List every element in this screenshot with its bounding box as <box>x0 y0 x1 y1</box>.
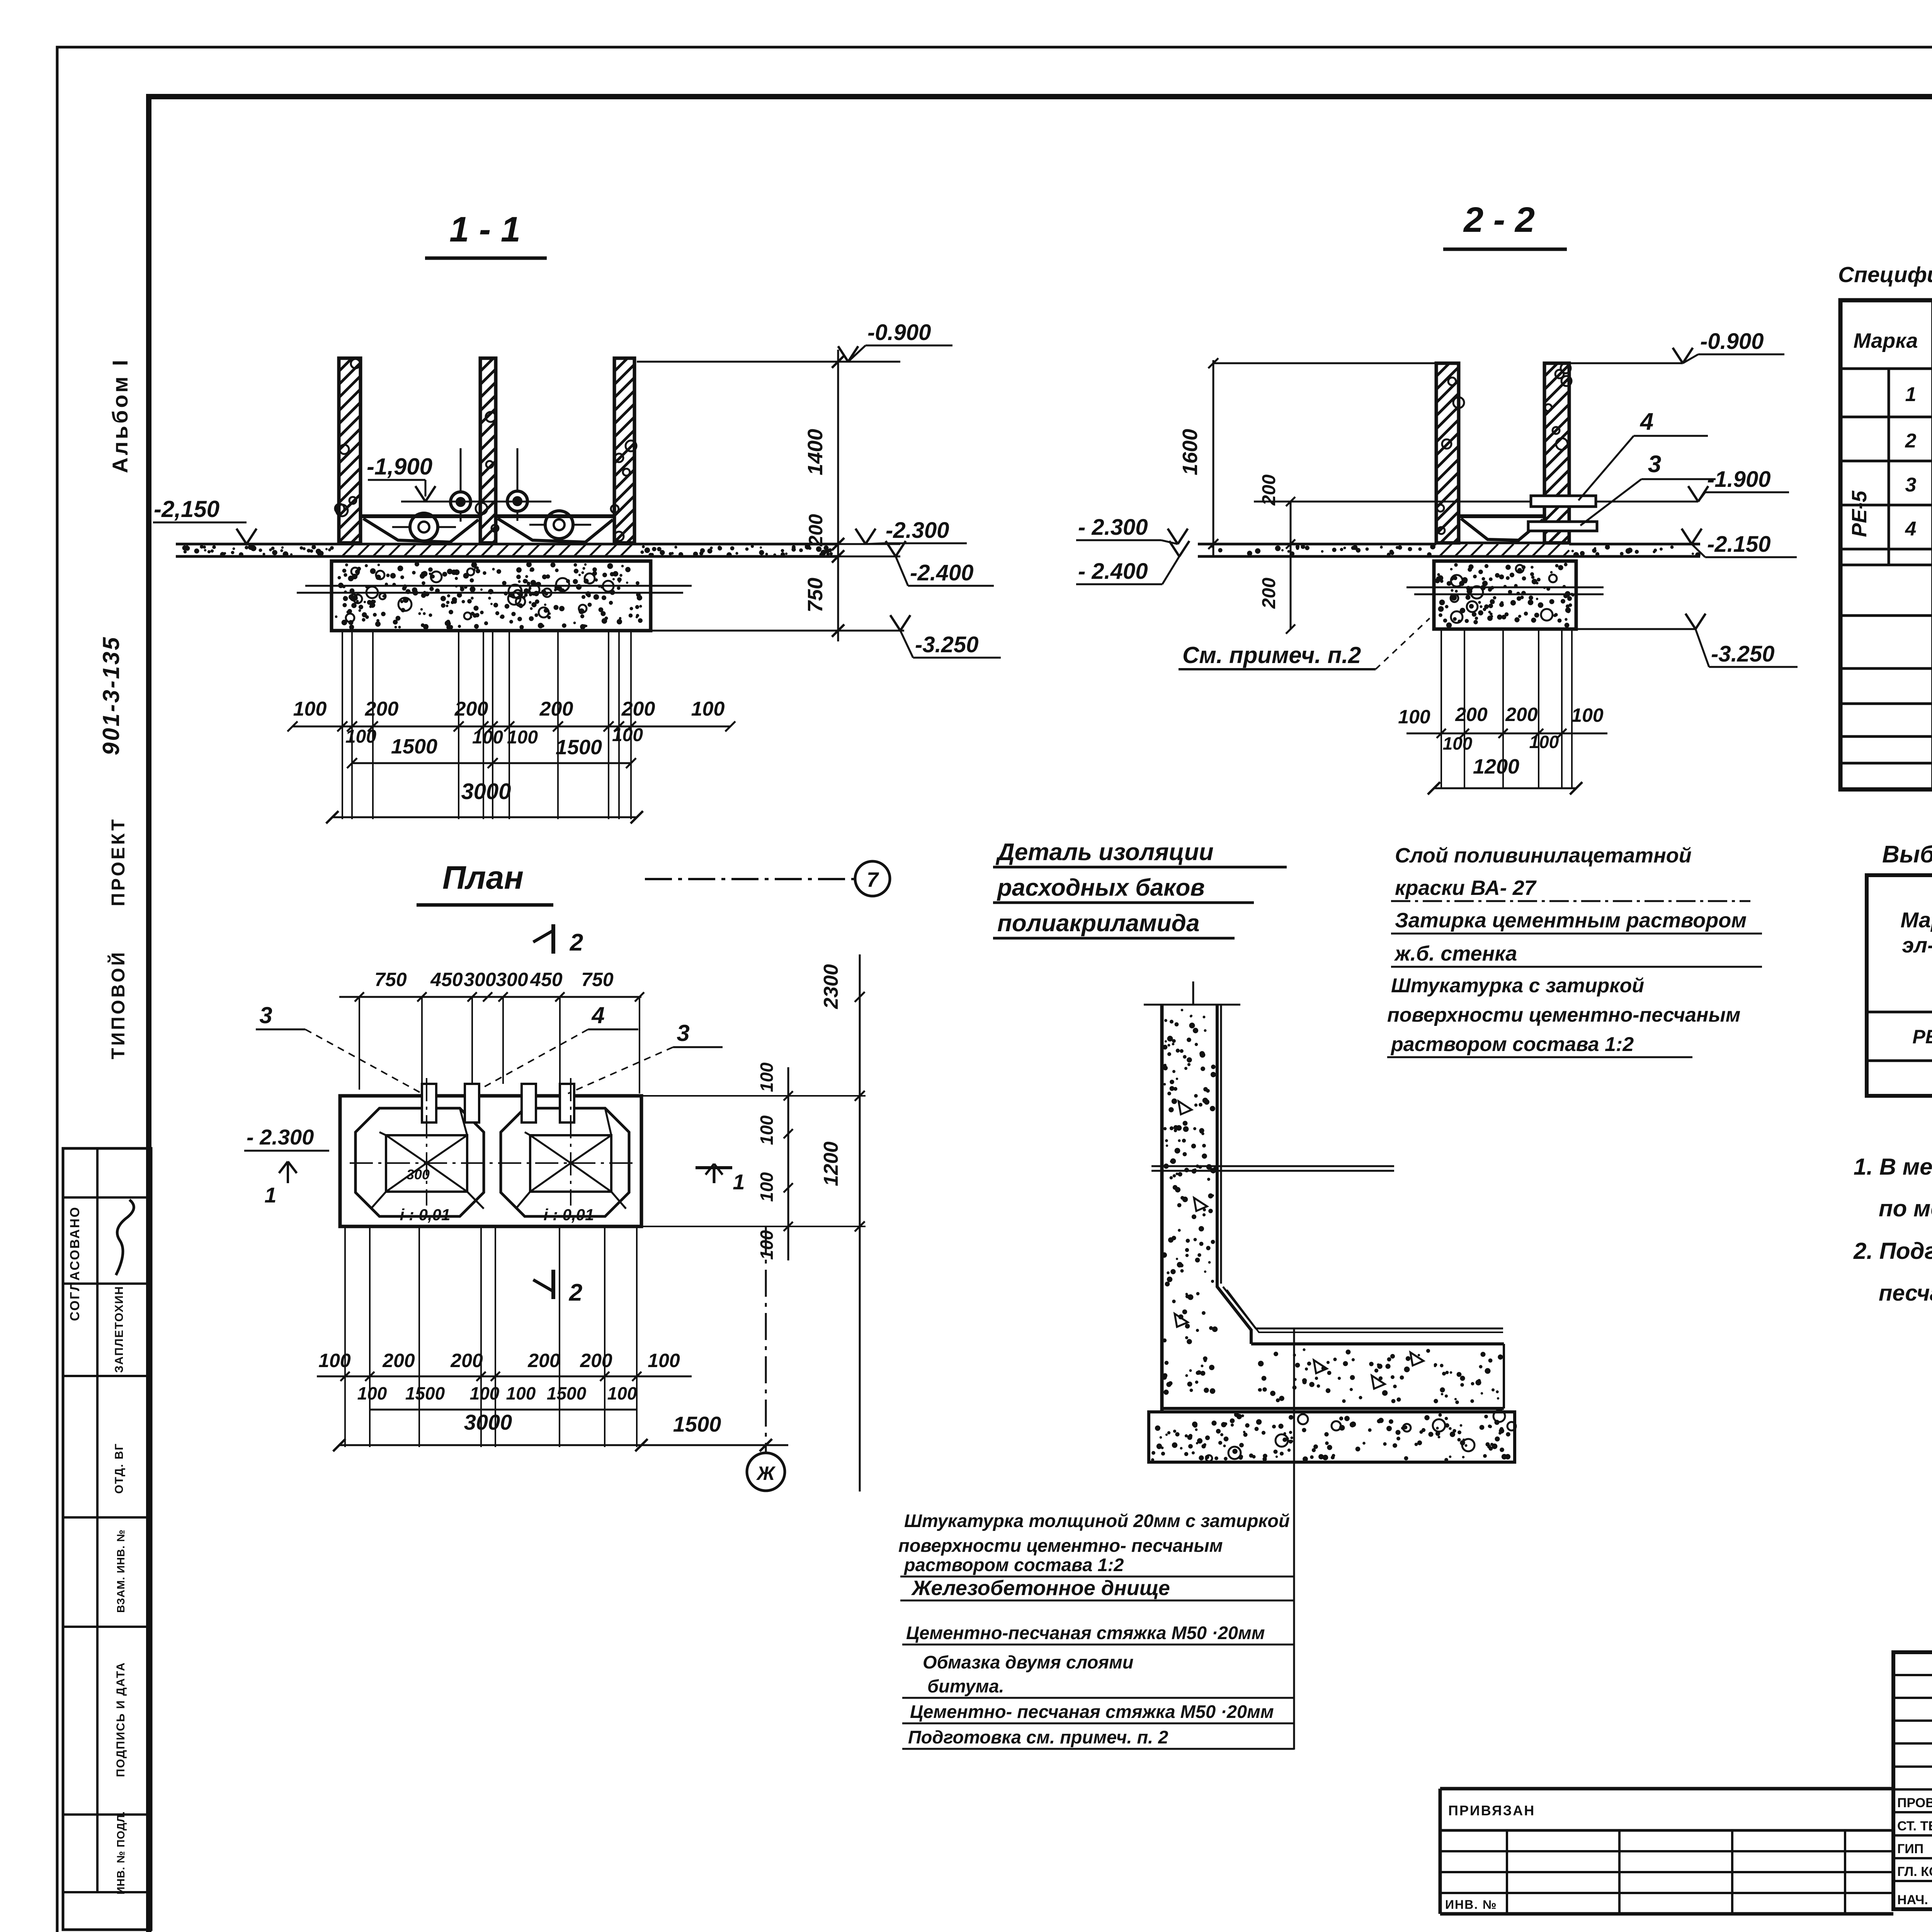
svg-text:2: 2 <box>570 929 583 956</box>
svg-text:3: 3 <box>259 1002 272 1028</box>
svg-text:3000: 3000 <box>464 1410 512 1434</box>
svg-text:300: 300 <box>464 969 496 990</box>
svg-text:1 - 1: 1 - 1 <box>449 210 520 249</box>
svg-text:Марка: Марка <box>1854 329 1918 352</box>
svg-text:2: 2 <box>1905 430 1917 452</box>
svg-text:450: 450 <box>430 969 463 990</box>
svg-text:Слой поливинилацетатной: Слой поливинилацетатной <box>1395 844 1692 867</box>
svg-text:полиакриламида: полиакриламида <box>997 910 1199 937</box>
svg-text:1500: 1500 <box>556 736 602 759</box>
svg-text:ОТД. ВГ: ОТД. ВГ <box>113 1443 126 1494</box>
svg-text:1600: 1600 <box>1179 429 1202 475</box>
svg-text:100: 100 <box>357 1383 387 1403</box>
svg-text:эл-та: эл-та <box>1902 933 1932 957</box>
svg-text:100: 100 <box>506 1383 536 1403</box>
svg-text:ПРИВЯЗАН: ПРИВЯЗАН <box>1448 1803 1535 1818</box>
svg-text:- 2.400: - 2.400 <box>1078 559 1148 584</box>
svg-text:3: 3 <box>1905 474 1917 496</box>
svg-text:i : 0,01: i : 0,01 <box>400 1206 451 1224</box>
svg-text:Цементно-песчаная стяжка М50: Цементно-песчаная стяжка М50 ·20мм <box>906 1622 1265 1643</box>
svg-text:901-3-135: 901-3-135 <box>98 636 124 755</box>
svg-text:-2.300: -2.300 <box>886 518 949 543</box>
svg-text:100: 100 <box>612 725 643 745</box>
svg-text:100: 100 <box>1529 732 1559 752</box>
svg-text:-1.900: -1.900 <box>1707 467 1770 492</box>
svg-text:ИНВ. № ПОДЛ.: ИНВ. № ПОДЛ. <box>115 1811 127 1895</box>
svg-text:НАЧ. ОТД.: НАЧ. ОТД. <box>1897 1893 1932 1907</box>
svg-text:100: 100 <box>757 1062 777 1092</box>
svg-text:100: 100 <box>757 1115 777 1145</box>
svg-text:100: 100 <box>607 1383 637 1403</box>
svg-text:100: 100 <box>318 1350 351 1371</box>
svg-text:Альбом I: Альбом I <box>108 357 132 473</box>
svg-text:100: 100 <box>293 698 327 720</box>
svg-text:200: 200 <box>539 698 573 720</box>
svg-text:битума.: битума. <box>927 1676 1004 1696</box>
svg-text:100: 100 <box>507 727 538 748</box>
svg-text:1. В местах пропуска сальни: 1. В местах пропуска сальников арматуру … <box>1854 1154 1932 1180</box>
svg-text:1500: 1500 <box>673 1412 721 1436</box>
svg-text:i : 0,01: i : 0,01 <box>544 1206 594 1224</box>
svg-text:750: 750 <box>804 578 827 612</box>
svg-text:поверхности цементно-песчаным: поверхности цементно-песчаным <box>1387 1004 1740 1026</box>
svg-text:Затирка цементным раствором: Затирка цементным раствором <box>1395 909 1747 932</box>
svg-text:- 2.300: - 2.300 <box>247 1125 314 1149</box>
svg-text:ЗАПЛЕТОХИН: ЗАПЛЕТОХИН <box>113 1286 126 1373</box>
svg-text:Выборка стали на один элемент,: Выборка стали на один элемент, кг. <box>1882 841 1932 868</box>
svg-text:Подготовка см. примеч. п. 2: Подготовка см. примеч. п. 2 <box>908 1727 1168 1747</box>
svg-text:2: 2 <box>569 1279 582 1306</box>
svg-text:200: 200 <box>621 698 655 720</box>
svg-text:СТ. ТЕХН.: СТ. ТЕХН. <box>1897 1819 1932 1833</box>
svg-text:4: 4 <box>1905 518 1917 540</box>
svg-text:ТИПОВОЙ: ТИПОВОЙ <box>107 950 129 1060</box>
svg-text:ГИП: ГИП <box>1897 1842 1923 1856</box>
svg-text:-0.900: -0.900 <box>867 320 931 345</box>
svg-text:200: 200 <box>382 1350 415 1371</box>
svg-text:1500: 1500 <box>405 1383 445 1403</box>
svg-text:200: 200 <box>454 698 488 720</box>
svg-text:-3.250: -3.250 <box>915 632 978 657</box>
svg-text:3: 3 <box>1648 451 1661 478</box>
svg-text:200: 200 <box>450 1350 483 1371</box>
svg-text:200: 200 <box>527 1350 560 1371</box>
svg-text:-3.250: -3.250 <box>1711 641 1774 667</box>
svg-text:200: 200 <box>1259 578 1279 609</box>
svg-text:100: 100 <box>1571 704 1604 726</box>
svg-text:ПРОВЕРИЛ: ПРОВЕРИЛ <box>1897 1796 1932 1810</box>
svg-text:Цементно- песчаная стяжка М50: Цементно- песчаная стяжка М50 ·20мм <box>910 1701 1274 1722</box>
svg-text:поверхности цементно- песчан: поверхности цементно- песчаным <box>898 1535 1223 1556</box>
svg-text:ПРОЕКТ: ПРОЕКТ <box>108 817 129 906</box>
svg-text:2300: 2300 <box>820 964 842 1009</box>
svg-text:3000: 3000 <box>461 779 511 804</box>
svg-text:1500: 1500 <box>391 735 437 758</box>
svg-text:100: 100 <box>648 1350 680 1371</box>
svg-text:100: 100 <box>757 1172 777 1202</box>
svg-text:Спецификация элементов к марки: Спецификация элементов к маркировочной с… <box>1838 262 1932 287</box>
svg-text:750: 750 <box>581 969 614 990</box>
svg-text:РЕ-5: РЕ-5 <box>1912 1026 1932 1048</box>
svg-text:РЕ-5: РЕ-5 <box>1848 490 1871 537</box>
svg-text:100: 100 <box>691 698 725 720</box>
svg-text:100: 100 <box>470 1383 500 1403</box>
svg-text:Штукатурка с затиркой: Штукатурка с затиркой <box>1391 975 1644 997</box>
svg-text:по месту и приварить к кор: по месту и приварить к корпусу сальника. <box>1879 1196 1932 1221</box>
svg-text:300: 300 <box>496 969 528 990</box>
svg-text:200: 200 <box>1505 704 1538 725</box>
svg-text:ГЛ. КОНСТР.: ГЛ. КОНСТР. <box>1897 1864 1932 1879</box>
svg-text:-2,150: -2,150 <box>154 496 219 522</box>
svg-text:750: 750 <box>374 969 407 990</box>
svg-text:1400: 1400 <box>804 429 827 475</box>
svg-text:200: 200 <box>1455 704 1488 725</box>
svg-text:Штукатурка толщиной 20мм с: Штукатурка толщиной 20мм с затиркой <box>904 1510 1290 1531</box>
svg-text:расходных баков: расходных баков <box>997 874 1205 901</box>
svg-text:1: 1 <box>264 1183 276 1207</box>
svg-text:1200: 1200 <box>1473 755 1519 778</box>
svg-text:3: 3 <box>677 1020 689 1046</box>
svg-text:1: 1 <box>1905 383 1917 406</box>
svg-text:200: 200 <box>365 698 399 720</box>
svg-text:100: 100 <box>472 727 503 748</box>
svg-text:450: 450 <box>530 969 563 990</box>
svg-text:краски ВА- 27: краски ВА- 27 <box>1395 876 1537 900</box>
svg-text:7: 7 <box>867 868 879 891</box>
svg-text:100: 100 <box>345 726 376 747</box>
svg-text:-2.150: -2.150 <box>1707 532 1770 557</box>
svg-text:-1,900: -1,900 <box>367 454 432 480</box>
svg-text:2 - 2: 2 - 2 <box>1463 200 1535 240</box>
svg-text:100: 100 <box>1443 733 1473 753</box>
svg-text:ИНВ. №: ИНВ. № <box>1445 1898 1497 1912</box>
svg-text:Ж: Ж <box>756 1463 776 1484</box>
svg-text:4: 4 <box>591 1002 604 1028</box>
svg-text:раствором составa 1:2: раствором составa 1:2 <box>903 1554 1124 1575</box>
svg-text:1: 1 <box>733 1170 745 1194</box>
svg-text:План: План <box>442 859 524 896</box>
svg-text:-2.400: -2.400 <box>910 560 973 585</box>
svg-text:4: 4 <box>1639 408 1653 435</box>
svg-text:ПОДПИСЬ И ДАТА: ПОДПИСЬ И ДАТА <box>114 1662 127 1777</box>
svg-text:Железобетонное днище: Железобетонное днище <box>911 1577 1170 1600</box>
svg-text:песчано-гравийной смеси, прол: песчано-гравийной смеси, пролитой цемент… <box>1879 1281 1932 1306</box>
svg-text:Обмазка двумя слоями: Обмазка двумя слоями <box>923 1652 1133 1672</box>
svg-text:Марка: Марка <box>1901 908 1932 932</box>
svg-text:ВЗАМ. ИНВ. №: ВЗАМ. ИНВ. № <box>115 1529 127 1613</box>
svg-text:ж.б. стенка: ж.б. стенка <box>1394 942 1517 965</box>
svg-text:раствором состава 1:2: раствором состава 1:2 <box>1390 1033 1634 1056</box>
svg-text:200: 200 <box>580 1350 612 1371</box>
svg-text:-0.900: -0.900 <box>1700 329 1764 354</box>
svg-text:См. примеч. п.2: См. примеч. п.2 <box>1182 642 1361 668</box>
svg-text:Деталь изоляции: Деталь изоляции <box>995 839 1214 866</box>
svg-text:2. Подготовка под ёмкость Р: 2. Подготовка под ёмкость РЕ-5 выполнена… <box>1853 1238 1932 1264</box>
svg-text:1500: 1500 <box>547 1383 587 1403</box>
svg-text:200: 200 <box>805 514 827 547</box>
svg-text:1200: 1200 <box>820 1141 842 1186</box>
svg-text:100: 100 <box>1398 706 1430 728</box>
svg-text:- 2.300: - 2.300 <box>1078 515 1148 540</box>
svg-text:СОГЛАСОВАНО: СОГЛАСОВАНО <box>68 1206 82 1321</box>
